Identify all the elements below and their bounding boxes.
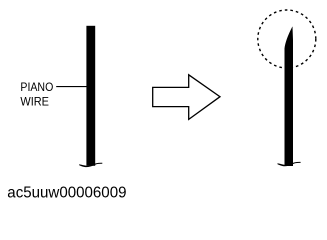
svg-text:WIRE: WIRE	[20, 94, 49, 108]
left wire base flourish	[79, 163, 102, 167]
right wire base flourish	[278, 162, 301, 166]
leader line from label to wire	[56, 86, 88, 88]
block arrow (hollow, pointing right)	[153, 75, 220, 120]
sharpened piano wire W2 (right, needle tip)	[285, 27, 294, 166]
svg-text:PIANO: PIANO	[20, 80, 53, 94]
dashed circle highlighting sharpened tip	[258, 10, 316, 68]
svg-text:ac5uuw00006009: ac5uuw00006009	[7, 185, 126, 202]
piano wire W1 (left, blunt)	[86, 26, 95, 166]
